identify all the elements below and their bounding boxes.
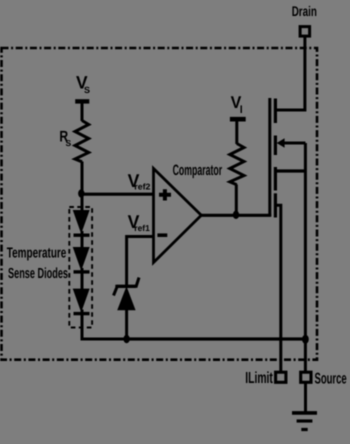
wire: Drain pad to MOSFET drain tap (275, 36, 305, 110)
wire: D2 to D3 (81, 268, 84, 290)
svg-text:S: S (84, 85, 90, 95)
temperature sense diodes dashed box (69, 207, 92, 328)
junction: RT / output wire (233, 211, 239, 219)
svg-text:Source: Source (315, 371, 347, 388)
diode D3 (74, 289, 89, 310)
wire: RS to node A (81, 162, 84, 195)
Source pad (301, 372, 311, 382)
zener diode triangle (118, 288, 134, 309)
wire: bottom source rail (126, 337, 306, 340)
Q1 channel segment 4 (274, 193, 277, 217)
svg-text:ref1: ref1 (134, 223, 150, 233)
Q1 channel segment 3 (274, 167, 277, 191)
transistor Q1 power MOSFET gate line (268, 98, 271, 217)
wire: VT bar to resistor RT (235, 119, 238, 144)
zener diode bar with hooks (114, 278, 140, 296)
wire: MOSFET source down to Source pad (304, 143, 307, 371)
wire: zener to bottom rail (125, 308, 128, 340)
svg-text:Sense Diodes: Sense Diodes (8, 266, 68, 282)
wire: VS bar to resistor RS (81, 101, 84, 121)
Q1 body arrow (277, 138, 285, 147)
ILimit pad (276, 372, 286, 382)
wire: node A to comparator + input (81, 193, 153, 196)
svg-text:Comparator: Comparator (173, 162, 223, 179)
Q1 source tap (275, 169, 305, 172)
resistor RS (75, 121, 89, 162)
op-amp + input mark (159, 189, 171, 200)
wire: D1 to D2 (81, 231, 84, 249)
VS terminal bar (75, 99, 89, 103)
wire: node A into diode stack (81, 194, 84, 212)
svg-text:ILimit: ILimit (245, 370, 273, 387)
diode D1 (74, 211, 89, 232)
IC boundary dash-dot border (2, 48, 318, 360)
wire: comparator output to MOSFET gate (201, 214, 272, 217)
Q1 channel segment 2 (274, 136, 277, 156)
diode D2 (74, 248, 89, 269)
junction: zener / bottom rail (123, 335, 129, 343)
resistor RT (230, 144, 244, 185)
VT terminal bar (230, 117, 246, 122)
wire: Source pad to ground (304, 382, 307, 412)
wire: Vref1 node to comparator - input (127, 237, 153, 286)
node A junction dot (78, 189, 84, 197)
wire: sense source tap (275, 205, 281, 371)
svg-text:ref2: ref2 (134, 181, 150, 191)
Q1 channel segment 1 (274, 99, 277, 124)
wire: RT to comparator output node (235, 185, 238, 216)
op-amp U1 comparator body (154, 169, 202, 263)
op-amp - input mark (157, 233, 167, 237)
svg-text:Drain: Drain (292, 3, 317, 19)
ground symbol (292, 411, 317, 415)
Drain pad (300, 27, 310, 36)
svg-text:Temperature: Temperature (7, 245, 67, 261)
svg-text:l: l (240, 104, 243, 116)
junction: source rail / bottom rail (302, 335, 309, 344)
wire: diode stack to bottom rail corner (82, 310, 127, 340)
svg-text:S: S (66, 138, 72, 148)
